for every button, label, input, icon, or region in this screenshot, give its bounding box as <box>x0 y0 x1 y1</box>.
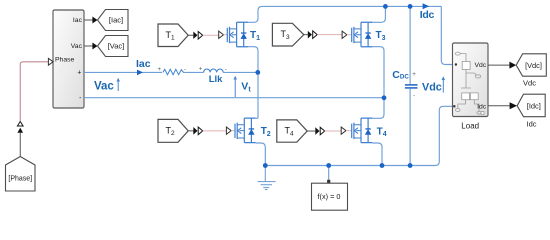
svg-text:Idc: Idc <box>526 120 536 129</box>
svg-text:[Phase]: [Phase] <box>8 176 32 183</box>
svg-text:[Iac]: [Iac] <box>109 16 123 25</box>
svg-text:Vac: Vac <box>94 81 114 93</box>
svg-text:f(x) = 0: f(x) = 0 <box>318 192 341 201</box>
svg-text:Llk: Llk <box>209 74 223 85</box>
svg-text:[Vdc]: [Vdc] <box>525 61 542 70</box>
svg-text:-: - <box>225 66 227 73</box>
svg-text:[Idc]: [Idc] <box>527 102 541 111</box>
svg-text:Vdc: Vdc <box>474 62 486 69</box>
svg-text:CDC: CDC <box>392 69 409 81</box>
svg-text:+: + <box>412 71 416 78</box>
svg-text:Load: Load <box>461 122 479 131</box>
svg-text:T2: T2 <box>261 126 271 138</box>
svg-text:Idc: Idc <box>477 103 487 110</box>
svg-text:Vdc: Vdc <box>422 82 442 94</box>
svg-text:Iac: Iac <box>136 58 151 70</box>
svg-text:+: + <box>158 66 162 73</box>
svg-text:-: - <box>413 92 415 99</box>
svg-text:T4: T4 <box>377 126 387 138</box>
svg-text:Phase: Phase <box>55 57 74 64</box>
svg-text:-: - <box>184 66 186 73</box>
svg-text:Vt: Vt <box>241 81 251 94</box>
svg-text:+: + <box>199 65 203 72</box>
svg-text:Iac: Iac <box>73 17 83 24</box>
svg-text:[Vac]: [Vac] <box>108 42 125 51</box>
svg-text:+: + <box>77 70 81 77</box>
svg-text:T1: T1 <box>250 30 260 42</box>
svg-text:Vac: Vac <box>71 43 83 50</box>
svg-text:Idc: Idc <box>420 9 435 21</box>
svg-text:Vdc: Vdc <box>523 78 536 87</box>
svg-text:T3: T3 <box>376 30 386 42</box>
